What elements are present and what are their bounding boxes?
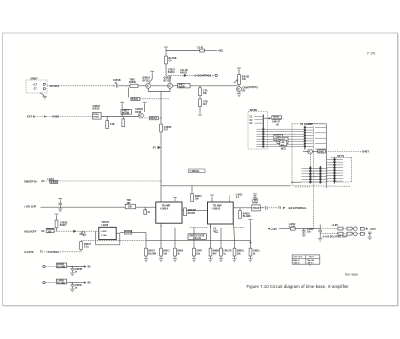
svg-text:U 985(A): U 985(A): [190, 170, 200, 173]
svg-text:B4017: B4017: [60, 224, 67, 227]
svg-text:T45071: T45071: [102, 221, 111, 224]
svg-text:-1 C4B: -1 C4B: [101, 234, 108, 237]
svg-text:C4B7B: C4B7B: [164, 126, 172, 129]
svg-text:L4004: L4004: [307, 228, 314, 231]
svg-text:C4B 1n: C4B 1n: [293, 261, 300, 264]
svg-text:B4016: B4016: [243, 212, 250, 215]
svg-text:BF123: BF123: [143, 80, 151, 82]
svg-text:C4B4C: C4B4C: [75, 284, 83, 287]
svg-text:RAY 9608: RAY 9608: [345, 272, 358, 276]
svg-text:B4B4: B4B4: [177, 250, 184, 253]
svg-text:Q4B1A: Q4B1A: [143, 77, 151, 80]
svg-text:BLANK: BLANK: [243, 215, 251, 218]
svg-text:1n5: 1n5: [281, 144, 284, 146]
svg-text:+B: +B: [276, 124, 279, 126]
svg-text:U 985 B: U 985 B: [212, 208, 221, 210]
svg-text:B4017: B4017: [148, 250, 155, 253]
svg-text:C4B1B: C4B1B: [60, 222, 68, 225]
svg-text:C4B7: C4B7: [196, 250, 203, 253]
svg-text:BLANK: BLANK: [57, 282, 65, 285]
svg-text:A4B 47: A4B 47: [272, 121, 281, 124]
svg-text:T4B: T4B: [127, 199, 132, 202]
svg-text:U 985 A: U 985 A: [160, 207, 169, 210]
svg-text:HOLDOFF: HOLDOFF: [24, 229, 37, 233]
svg-text:B4004: B4004: [84, 243, 91, 246]
svg-text:A 0.05 DELAYING SWP: A 0.05 DELAYING SWP: [322, 236, 347, 239]
svg-text:B0007: B0007: [179, 87, 186, 89]
svg-text:L4002: L4002: [289, 223, 296, 226]
svg-text:+15V SUP: +15V SUP: [24, 205, 36, 209]
svg-text:A GATE: A GATE: [24, 250, 34, 254]
svg-text:TB AMP: TB AMP: [213, 204, 222, 207]
svg-text:PART: PART: [309, 256, 315, 259]
svg-text:C4B4B: C4B4B: [75, 268, 83, 271]
svg-text:B4014: B4014: [195, 195, 202, 198]
svg-text:+1 B47: +1 B47: [101, 230, 107, 233]
svg-text:REF DES: REF DES: [294, 257, 303, 259]
svg-text:SWEEP GATE: SWEEP GATE: [189, 234, 205, 237]
svg-text:L4003: L4003: [252, 199, 259, 202]
svg-text:B4L2B: B4L2B: [242, 76, 250, 79]
svg-text:BLANK: BLANK: [169, 57, 177, 60]
svg-text:10u: 10u: [307, 232, 312, 234]
svg-text:C4B1B: C4B1B: [135, 108, 143, 111]
svg-text:C4B17: C4B17: [168, 69, 176, 72]
svg-text:EXT IN: EXT IN: [27, 115, 35, 119]
svg-text:+ B4BT: + B4BT: [360, 150, 369, 154]
svg-text:C4B1D: C4B1D: [93, 105, 101, 108]
svg-text:C3 47: C3 47: [197, 46, 204, 49]
svg-text:Figure 7.10 Circuit diagram of: Figure 7.10 Circuit diagram of time-base…: [247, 284, 350, 289]
svg-text:START: START: [188, 212, 196, 215]
svg-text:+12V: +12V: [271, 227, 277, 231]
svg-text:SWEEP B+: SWEEP B+: [24, 179, 38, 183]
svg-text:B4B7: B4B7: [319, 150, 326, 153]
svg-text:BLANK: BLANK: [148, 252, 156, 255]
svg-text:TRAP: TRAP: [252, 201, 259, 204]
svg-text:+H01: +H01: [218, 51, 224, 53]
svg-text:+4.8V: +4.8V: [331, 223, 338, 227]
svg-text:100 mV: 100 mV: [193, 238, 202, 240]
svg-text:C4L1B: C4L1B: [180, 69, 188, 72]
svg-text:B4 EXTERNAL: B4 EXTERNAL: [289, 206, 307, 210]
svg-text:B4B10: B4B10: [237, 250, 245, 253]
svg-text:MTDB: MTDB: [93, 116, 99, 118]
svg-text:C4B: C4B: [110, 123, 115, 126]
svg-text:BCD: BCD: [281, 148, 286, 150]
svg-text:+15V: +15V: [370, 227, 376, 231]
svg-text:0.1u: 0.1u: [84, 247, 89, 249]
svg-text:TRAP: TRAP: [253, 207, 260, 210]
svg-text:7-20: 7-20: [367, 52, 376, 56]
svg-text:C4B.7B: C4B.7B: [223, 250, 232, 253]
svg-text:+C7: +C7: [33, 84, 38, 86]
svg-text:B400B: B400B: [125, 231, 132, 234]
svg-text:C7A: C7A: [203, 89, 208, 92]
svg-text:L4008: L4008: [102, 224, 109, 227]
svg-text:BF10B: BF10B: [122, 113, 130, 115]
svg-text:TB SWEEP: TB SWEEP: [300, 123, 313, 126]
svg-text:BF1B: BF1B: [135, 112, 141, 114]
svg-text:J CONTROL: J CONTROL: [195, 74, 213, 78]
svg-text:TB AMP: TB AMP: [162, 204, 171, 207]
svg-text:C7B: C7B: [203, 101, 208, 103]
svg-text:U(PC): U(PC): [249, 85, 257, 89]
svg-text:SW ASSY: SW ASSY: [273, 117, 282, 120]
svg-text:L4B 0.1: L4B 0.1: [307, 261, 314, 264]
svg-text:C4B11: C4B11: [253, 250, 261, 253]
svg-text:B4012: B4012: [150, 117, 157, 120]
svg-text:L4015: L4015: [236, 194, 243, 197]
svg-text:B4010: B4010: [93, 108, 100, 111]
svg-text:C4B1B: C4B1B: [113, 79, 121, 82]
svg-text:BLANK: BLANK: [57, 266, 65, 269]
svg-text:10n: 10n: [196, 253, 201, 255]
svg-text:B4B 2: B4B 2: [163, 250, 170, 253]
svg-text:B4011: B4011: [132, 98, 139, 101]
svg-text:SWEEP: SWEEP: [188, 210, 197, 212]
svg-text:B4010: B4010: [168, 71, 175, 74]
svg-text:SW4B1: SW4B1: [250, 109, 259, 112]
svg-text:B4012: B4012: [180, 71, 187, 74]
svg-text:J4B07: J4B07: [30, 77, 38, 81]
svg-text:B4BB: B4BB: [213, 250, 220, 253]
svg-text:B4009: B4009: [129, 81, 136, 84]
svg-text:R17: R17: [164, 130, 169, 132]
